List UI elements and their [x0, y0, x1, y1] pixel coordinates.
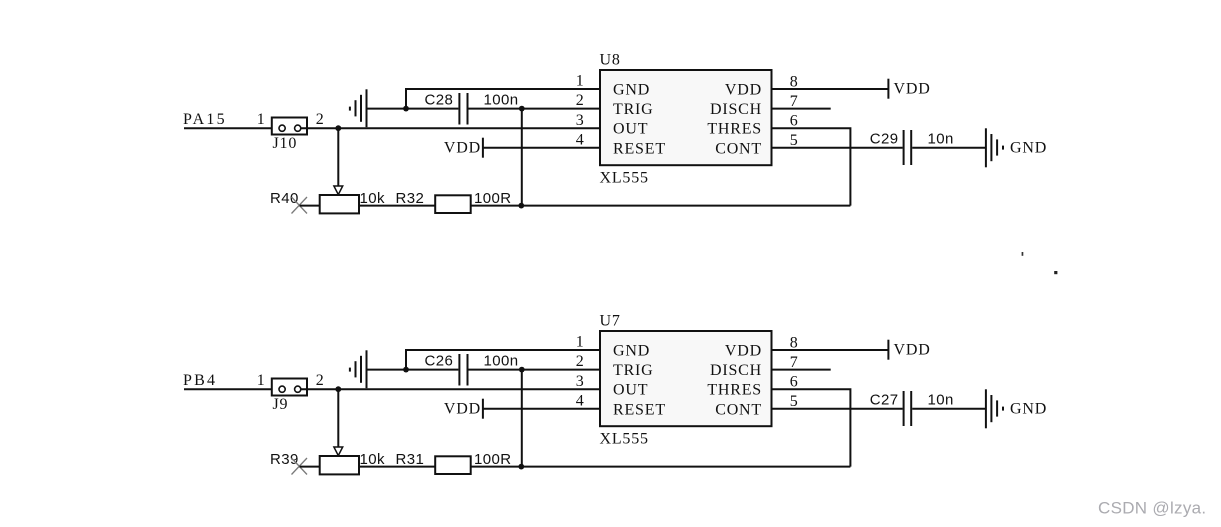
svg-text:VDD: VDD: [894, 81, 931, 98]
svg-text:100R: 100R: [474, 451, 511, 468]
capacitor C29 plates: [904, 130, 912, 165]
power VDD symbol at pin 8: [888, 79, 930, 99]
svg-text:3: 3: [576, 373, 585, 390]
svg-text:R39: R39: [270, 451, 299, 468]
wire ground to C26 left plate: [406, 369, 458, 371]
wire C27 to ground: [912, 408, 985, 410]
svg-text:7: 7: [790, 354, 799, 371]
svg-text:TRIG: TRIG: [613, 362, 654, 379]
svg-text:THRES: THRES: [707, 121, 762, 138]
wire VDD to RESET pin 4: [483, 147, 600, 149]
svg-text:10n: 10n: [928, 130, 954, 147]
node junction on resistor wire: [518, 464, 524, 470]
wire PB4 to connector J9 pin 1: [184, 388, 282, 390]
node junction TRIG: [519, 367, 525, 373]
svg-text:R32: R32: [396, 190, 425, 207]
ground symbol (left, at capacitor C26): [350, 350, 406, 388]
wire R32 to THRES corner: [471, 205, 851, 207]
potentiometer R40 body: [320, 195, 359, 213]
capacitor C27 plates: [904, 391, 912, 426]
wire DISCH pin 7 stub: [772, 108, 831, 110]
wire GND pin 1 corner: [406, 350, 600, 370]
node junction below GND pin corner: [403, 367, 409, 373]
resistor R32 body: [435, 195, 471, 213]
svg-text:C27: C27: [870, 391, 899, 408]
svg-text:8: 8: [790, 73, 799, 90]
node junction on resistor wire: [518, 203, 524, 209]
svg-text:2: 2: [576, 353, 585, 370]
svg-text:2: 2: [316, 111, 325, 128]
svg-text:RESET: RESET: [613, 401, 666, 418]
connector J10 (jumper): [272, 118, 307, 135]
capacitor C26 plates: [459, 354, 467, 386]
svg-text:GND: GND: [613, 82, 650, 99]
svg-text:1: 1: [257, 372, 266, 389]
wire TRIG junction down to resistor wire: [521, 109, 523, 206]
svg-text:PB4: PB4: [183, 372, 217, 389]
wire TRIG junction down to resistor wire: [521, 370, 523, 467]
svg-text:10n: 10n: [928, 391, 954, 408]
wire J9 pin 2 to U pin 3 OUT: [301, 388, 600, 390]
svg-text:THRES: THRES: [707, 382, 762, 399]
svg-text:J10: J10: [273, 135, 298, 152]
svg-text:2: 2: [316, 372, 325, 389]
node junction at OUT wire: [335, 386, 341, 392]
wire J10 pin 2 to U pin 3 OUT: [301, 127, 600, 129]
wire THRES pin 6 down: [772, 389, 851, 466]
ground symbol GND (right): [986, 128, 1047, 167]
svg-text:DISCH: DISCH: [710, 101, 762, 118]
svg-text:J9: J9: [273, 396, 289, 413]
svg-text:8: 8: [790, 334, 799, 351]
op-amp U U8 (XL555 timer IC) body: [600, 70, 772, 165]
connector J9 (jumper): [272, 379, 307, 396]
svg-text:CONT: CONT: [715, 401, 762, 418]
wire VDD pin 8: [772, 349, 889, 351]
wire stub into R40: [300, 205, 320, 207]
svg-text:C29: C29: [870, 130, 899, 147]
svg-text:4: 4: [576, 392, 585, 409]
svg-text:U7: U7: [600, 313, 621, 330]
resistor R31 body: [435, 456, 471, 474]
wire R39 to resistor R31: [359, 466, 435, 468]
svg-text:VDD: VDD: [444, 401, 481, 418]
svg-text:100n: 100n: [484, 352, 519, 369]
svg-text:1: 1: [257, 111, 266, 128]
node junction TRIG: [519, 106, 525, 112]
svg-text:CONT: CONT: [715, 140, 762, 157]
svg-text:GND: GND: [1010, 401, 1047, 418]
svg-text:4: 4: [576, 131, 585, 148]
svg-text:5: 5: [790, 132, 799, 149]
svg-text:R40: R40: [270, 190, 299, 207]
svg-text:10k: 10k: [360, 451, 385, 468]
wire C26 right plate to TRIG pin 2: [469, 369, 601, 371]
node junction at OUT wire: [335, 125, 341, 131]
op-amp U U7 (XL555 timer IC) body: [600, 331, 772, 426]
wiper arrow of R40: [334, 186, 343, 195]
svg-text:5: 5: [790, 393, 799, 410]
svg-text:100n: 100n: [484, 91, 519, 108]
power VDD symbol at pin 8: [888, 340, 930, 360]
svg-text:RESET: RESET: [613, 140, 666, 157]
svg-text:U8: U8: [600, 52, 621, 69]
svg-text:VDD: VDD: [725, 343, 762, 360]
wire CONT pin 5 to capacitor C27: [772, 408, 903, 410]
svg-text:6: 6: [790, 374, 799, 391]
potentiometer R39 body: [320, 456, 359, 474]
stray dot mark: [1054, 271, 1057, 274]
svg-text:XL555: XL555: [600, 431, 649, 448]
wire PA15 to connector J10 pin 1: [184, 127, 282, 129]
svg-text:DISCH: DISCH: [710, 362, 762, 379]
capacitor C28 plates: [459, 93, 467, 125]
svg-text:7: 7: [790, 93, 799, 110]
svg-text:100R: 100R: [474, 190, 511, 207]
svg-text:10k: 10k: [360, 190, 385, 207]
power VDD symbol at RESET: [444, 138, 483, 158]
wire C29 to ground: [912, 147, 985, 149]
wire ground to C28 left plate: [406, 108, 458, 110]
wire stub into R39: [300, 466, 320, 468]
svg-text:TRIG: TRIG: [613, 101, 654, 118]
wire junction down to potentiometer R40 wiper: [337, 128, 339, 186]
svg-text:2: 2: [576, 92, 585, 109]
svg-text:VDD: VDD: [444, 140, 481, 157]
svg-text:OUT: OUT: [613, 121, 648, 138]
stray tick mark: [1022, 252, 1024, 256]
wire R31 to THRES corner: [471, 466, 851, 468]
svg-text:1: 1: [576, 334, 585, 351]
svg-text:OUT: OUT: [613, 382, 648, 399]
wire C28 right plate to TRIG pin 2: [469, 108, 601, 110]
svg-text:6: 6: [790, 113, 799, 130]
svg-text:CSDN @lzya.: CSDN @lzya.: [1098, 499, 1206, 518]
wire VDD to RESET pin 4: [483, 408, 600, 410]
wire CONT pin 5 to capacitor C29: [772, 147, 903, 149]
svg-text:3: 3: [576, 112, 585, 129]
svg-text:PA15: PA15: [183, 111, 227, 128]
ground symbol GND (right): [986, 389, 1047, 428]
wire junction down to potentiometer R39 wiper: [337, 389, 339, 447]
svg-text:C26: C26: [425, 352, 454, 369]
svg-text:GND: GND: [1010, 140, 1047, 157]
no-connect X mark on R39 terminal: [292, 458, 308, 475]
svg-text:VDD: VDD: [725, 82, 762, 99]
svg-text:1: 1: [576, 73, 585, 90]
svg-text:XL555: XL555: [600, 170, 649, 187]
wire R40 to resistor R32: [359, 205, 435, 207]
wire DISCH pin 7 stub: [772, 369, 831, 371]
no-connect X mark on R40 terminal: [292, 197, 308, 214]
svg-text:R31: R31: [396, 451, 425, 468]
wire THRES pin 6 down: [772, 128, 851, 205]
node junction below GND pin corner: [403, 106, 409, 112]
svg-text:VDD: VDD: [894, 342, 931, 359]
svg-text:GND: GND: [613, 343, 650, 360]
wire VDD pin 8: [772, 88, 889, 90]
power VDD symbol at RESET: [444, 399, 483, 419]
ground symbol (left, at capacitor C28): [350, 89, 406, 127]
wiper arrow of R39: [334, 447, 343, 456]
svg-text:C28: C28: [425, 91, 454, 108]
wire GND pin 1 corner: [406, 89, 600, 109]
